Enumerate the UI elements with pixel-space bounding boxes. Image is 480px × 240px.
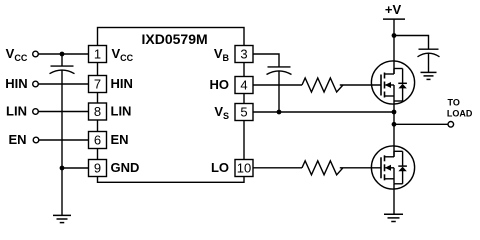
wire pin 4 HO to resistor R1 [253, 84, 302, 86]
wire LIN terminal to pin 8 [38, 111, 88, 113]
svg-text:VB: VB [214, 46, 230, 63]
pin 5 [235, 104, 253, 121]
svg-text:VCC: VCC [112, 46, 134, 63]
wire to load terminal [394, 123, 448, 125]
svg-text:4: 4 [240, 78, 247, 93]
terminal HIN [33, 81, 39, 87]
pin 10 [235, 160, 253, 177]
op-amp U1 IXD0579M body [98, 28, 245, 183]
ground GND1 [53, 215, 71, 222]
capacitor C1 (VCC decoupling) [50, 66, 75, 74]
wire VCC rail upper [61, 54, 63, 66]
svg-text:3: 3 [240, 47, 247, 62]
terminal TO LOAD [448, 122, 454, 128]
svg-text:LO: LO [211, 160, 229, 175]
pin 8 [89, 103, 107, 120]
pin 3 [235, 46, 253, 63]
pin 6 [89, 132, 107, 149]
power +V terminal bar [383, 18, 405, 20]
svg-text:10: 10 [237, 161, 251, 176]
wire VCC rail lower [61, 70, 63, 215]
wire +V junction to Q1 drain [393, 36, 395, 75]
terminal LIN [33, 109, 39, 115]
junction VCC rail [60, 52, 65, 57]
capacitor C2 (bootstrap) [267, 67, 292, 75]
wire VCC terminal to pin 1 [38, 53, 88, 55]
capacitor C3 (+V bypass) [418, 49, 440, 57]
ground GND2 [421, 72, 437, 79]
wire switch node down [393, 112, 395, 124]
wire GND rail to pin 9 [62, 167, 89, 169]
pin 9 [89, 160, 107, 177]
resistor R1 [302, 78, 343, 92]
wire HIN terminal to pin 7 [38, 83, 88, 85]
svg-text:EN: EN [8, 132, 26, 147]
terminal EN [33, 137, 39, 143]
wire R2 to Q2 gate [340, 167, 381, 169]
transistor Q2 (low-side MOSFET) [371, 146, 414, 189]
svg-text:LOAD: LOAD [447, 108, 473, 118]
svg-text:LIN: LIN [6, 104, 27, 119]
svg-text:+V: +V [385, 2, 402, 17]
junction +V node [392, 33, 397, 38]
svg-text:1: 1 [94, 47, 101, 62]
svg-text:EN: EN [111, 132, 129, 147]
wire pin 10 LO to resistor R2 [253, 167, 302, 169]
wire Q2 source to ground [393, 184, 395, 215]
wire +V to junction [393, 19, 395, 35]
pin 7 [89, 76, 107, 93]
svg-text:7: 7 [94, 77, 101, 92]
svg-text:VS: VS [214, 104, 229, 121]
resistor R2 [302, 161, 343, 175]
wire pin 5 VS to switch node [253, 111, 394, 113]
pin 4 [235, 77, 253, 94]
svg-text:HIN: HIN [111, 76, 133, 91]
pin 1 [89, 46, 107, 63]
svg-text:HO: HO [210, 77, 230, 92]
svg-text:8: 8 [94, 104, 101, 119]
wire pin 3 to bootstrap cap [253, 54, 279, 67]
wire Q1 source to VS node [393, 101, 395, 112]
wire load tap to Q2 drain [393, 124, 395, 157]
svg-text:VCC: VCC [6, 46, 28, 63]
junction GND rail [60, 166, 65, 171]
ground GND3 [384, 214, 403, 221]
svg-text:GND: GND [111, 160, 140, 175]
svg-text:IXD0579M: IXD0579M [142, 31, 208, 47]
wire EN terminal to pin 6 [39, 139, 89, 141]
terminal VCC [33, 51, 39, 57]
junction load tap [392, 122, 397, 127]
svg-text:HIN: HIN [5, 76, 27, 91]
junction VS bootstrap [277, 110, 282, 115]
junction switch node VS [392, 110, 397, 115]
wire +V junction to C3 [394, 36, 429, 50]
svg-text:LIN: LIN [111, 104, 132, 119]
svg-text:6: 6 [94, 133, 101, 148]
svg-text:9: 9 [94, 161, 101, 176]
svg-text:5: 5 [240, 105, 247, 120]
svg-text:TO: TO [448, 98, 460, 108]
wire C3 to ground [428, 53, 430, 72]
transistor Q1 (high-side MOSFET) [371, 61, 414, 104]
wire R1 to Q1 gate [340, 84, 381, 86]
wire bootstrap cap to VS node [278, 71, 280, 112]
